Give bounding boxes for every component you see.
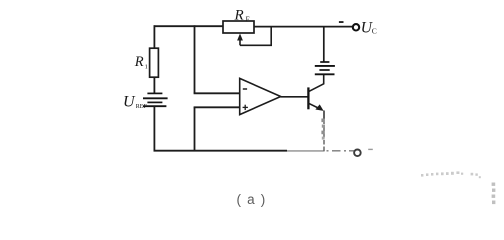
svg-text:R: R [234, 8, 244, 24]
watermark bottom right column [492, 183, 496, 205]
resistor R1 [150, 48, 159, 77]
terminal UC circle [353, 24, 359, 30]
wire noninverting input [194, 106, 240, 108]
battery B1 plates [320, 61, 329, 63]
wire return after terminal [368, 148, 373, 150]
wire inverting input [194, 92, 240, 94]
wire noninverting vertical [194, 107, 196, 151]
wire emitter vertical dashed [323, 120, 325, 151]
wire wiper loop [240, 27, 271, 46]
wire inverting feedback vertical [194, 25, 196, 93]
wire emitter vertical dark [323, 111, 325, 120]
op-amp inverting mark [243, 88, 247, 90]
transistor Q1 base bar [307, 87, 309, 109]
wire bottom rail dark segment [154, 150, 288, 152]
svg-text:REF: REF [136, 104, 148, 110]
wire bottom rail faded segment [287, 150, 325, 152]
wire top rail to battery B1 [323, 27, 325, 63]
svg-text:( a ): ( a ) [236, 192, 266, 207]
svg-text:R: R [134, 54, 144, 70]
wire battery to bottom rail [153, 106, 155, 151]
transistor Q1 collector [308, 84, 323, 92]
transistor Q1 emitter with arrow [308, 103, 319, 108]
potentiometer RF wiper arrow [237, 34, 243, 41]
svg-text:1: 1 [145, 64, 148, 71]
wire top rail right segment [254, 26, 353, 28]
polarity minus mark [339, 21, 344, 23]
svg-text:C: C [372, 26, 377, 35]
op-amp noninverting mark [243, 106, 248, 108]
watermark glyphs along emitter wire [321, 119, 324, 123]
svg-text:U: U [123, 94, 136, 111]
wire R1 to battery [153, 77, 155, 93]
wire left branch upper [153, 25, 155, 48]
wire op-amp output to base [281, 96, 308, 98]
op-amp U1 body [240, 78, 281, 114]
terminal bottom circle [354, 150, 361, 157]
watermark bottom right row [421, 171, 481, 178]
battery UREF plates [147, 92, 162, 94]
wire top rail left segment [154, 25, 224, 27]
svg-text:F: F [246, 15, 250, 23]
wire return dash-dot segment [327, 150, 355, 152]
potentiometer RF body [223, 21, 254, 33]
